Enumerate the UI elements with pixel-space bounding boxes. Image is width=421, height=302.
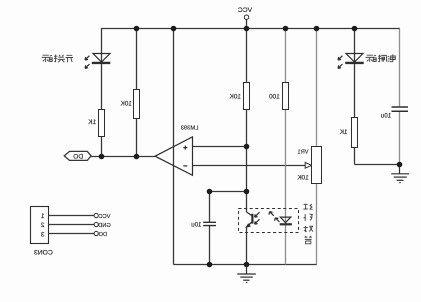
label 1K xyxy=(339,129,348,136)
label VCC xyxy=(238,7,252,14)
wire cap column left xyxy=(209,192,211,265)
svg-text:10u: 10u xyxy=(191,222,202,229)
svg-text:DO: DO xyxy=(73,153,83,160)
wire pin1 xyxy=(49,215,95,217)
label 1K xyxy=(88,119,97,126)
wire column potentiometer (gray) xyxy=(316,29,318,265)
terminal circle GND xyxy=(94,222,98,226)
junction dot plus input xyxy=(244,144,250,150)
junction dots output wire xyxy=(99,154,105,160)
terminal circle VCC xyxy=(94,213,98,217)
wire top VCC rail xyxy=(101,28,400,30)
svg-text:VCC: VCC xyxy=(99,214,111,220)
svg-text:10u: 10u xyxy=(380,113,391,120)
wire photo-transistor emitter to ground rail xyxy=(246,227,248,265)
label 10K xyxy=(120,100,132,107)
label GND xyxy=(98,223,110,229)
junction dots cap node xyxy=(207,189,213,195)
svg-text:2: 2 xyxy=(41,222,45,229)
label 红外对管 vertical (mirrored fake CJK) xyxy=(303,204,313,244)
wire op-amp plus input xyxy=(193,146,247,148)
svg-text:GND: GND xyxy=(98,223,110,229)
label DO xyxy=(98,232,107,238)
svg-text:10K: 10K xyxy=(297,174,309,181)
wire column switch-LED / R 1K xyxy=(101,29,103,157)
LED D1 switch indicator xyxy=(85,54,110,69)
label DO xyxy=(73,153,83,160)
resistor R4 100 body xyxy=(283,83,289,110)
photo-transistor Q1 xyxy=(247,212,260,227)
wire VCC stem xyxy=(246,19,248,28)
label 10K xyxy=(229,93,241,100)
port DO output flag xyxy=(64,151,91,160)
wire column through op-amp to bottom rail xyxy=(173,29,175,265)
svg-text:CON3: CON3 xyxy=(34,249,53,256)
opto LED D3 xyxy=(269,212,292,225)
capacitor C1 10u plates xyxy=(392,107,409,111)
svg-text:10K: 10K xyxy=(229,93,241,100)
svg-text:100: 100 xyxy=(269,93,280,100)
label VR1 xyxy=(298,150,309,156)
label 电源指示 (mirrored fake CJK) xyxy=(366,54,396,62)
wire pin2 xyxy=(49,224,95,226)
junction dot right cap node xyxy=(397,162,403,168)
resistor R3 10K body xyxy=(244,83,250,110)
svg-text:LM393: LM393 xyxy=(181,126,199,132)
svg-text:VR1: VR1 xyxy=(298,150,309,156)
pin 3 xyxy=(41,231,45,238)
wire column power LED / R 1K right xyxy=(354,29,356,165)
opto-coupler dashed box xyxy=(239,209,299,233)
label LM393 xyxy=(181,126,199,132)
label 100 xyxy=(269,93,280,100)
op-amp U1 LM393 xyxy=(155,137,192,175)
connector J1 CON3 xyxy=(31,207,49,244)
label 10u xyxy=(191,222,202,229)
label 10K pot xyxy=(297,174,309,181)
svg-text:10K: 10K xyxy=(120,100,132,107)
wire column R 10K left xyxy=(136,29,138,157)
svg-text:DO: DO xyxy=(98,232,107,238)
pin 1 xyxy=(41,213,45,220)
wire column R 100 / opto LED (gray) xyxy=(285,29,287,265)
VCC open circle xyxy=(244,15,248,19)
svg-text:VCC: VCC xyxy=(238,7,252,14)
wire column cap 10u right (gray) xyxy=(399,29,401,165)
svg-text:1K: 1K xyxy=(339,129,348,136)
label 开关指示 (mirrored fake CJK) xyxy=(42,55,73,63)
wire bottom rail xyxy=(174,264,318,266)
resistor R5 1K body xyxy=(352,118,358,148)
svg-text:1K: 1K xyxy=(88,119,97,126)
wire pin3 xyxy=(49,233,95,235)
resistor R1 1K body xyxy=(99,110,105,137)
resistor R2 10K body xyxy=(134,90,140,119)
label VCC xyxy=(99,214,111,220)
svg-text:3: 3 xyxy=(41,231,45,238)
pin 2 xyxy=(41,222,45,229)
wire op-amp minus input to pot wiper xyxy=(193,165,306,167)
junction dots bottom rail xyxy=(207,262,213,268)
LED D2 power indicator xyxy=(338,54,364,69)
ground right xyxy=(391,165,409,183)
wire cap 10u left node xyxy=(210,191,247,193)
capacitor C2 10u plates xyxy=(203,222,216,225)
wire R 1K bottom to cap node xyxy=(355,164,401,166)
terminal circle DO xyxy=(94,231,98,235)
wire column VCC / R 10K / photo-transistor xyxy=(246,29,248,213)
svg-text:1: 1 xyxy=(41,213,45,220)
label 10u xyxy=(380,113,391,120)
pot wiper arrow xyxy=(305,162,311,168)
wire output to op-amp xyxy=(91,156,155,158)
ground center xyxy=(237,265,256,283)
potentiometer RP body xyxy=(312,147,322,184)
junction dots top rail xyxy=(99,26,403,268)
label CON3 xyxy=(34,249,53,256)
